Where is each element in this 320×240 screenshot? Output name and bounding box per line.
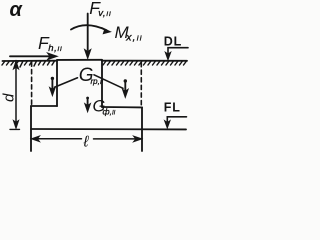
svg-text:d: d bbox=[0, 93, 17, 102]
tick at bottom of d dimension bbox=[10, 128, 20, 130]
leader from G gr,II to left arrow bbox=[55, 78, 78, 88]
force Fv,II vertical arrow bbox=[87, 14, 89, 51]
soil weight arrow left bbox=[51, 77, 54, 80]
footing step top left bbox=[31, 105, 57, 107]
dimension d (depth) line bbox=[15, 65, 17, 125]
moment Mx,II arc bbox=[71, 25, 107, 30]
svg-text:FL: FL bbox=[164, 101, 181, 115]
footing step top right bbox=[102, 106, 142, 108]
ground line right (DL level) bbox=[102, 60, 187, 62]
foundation column (pedestal) outline bbox=[57, 59, 102, 61]
ground line left (DL level) bbox=[3, 60, 58, 62]
svg-text:ℓ: ℓ bbox=[83, 134, 90, 151]
dashed soil-block boundary right bbox=[140, 63, 142, 106]
soil weight arrow right bbox=[124, 79, 127, 82]
svg-text:α: α bbox=[10, 0, 24, 21]
footing left edge (with dim extension below) bbox=[30, 106, 32, 151]
svg-text:x,II: x,II bbox=[125, 32, 143, 44]
foundation weight arrow bbox=[86, 97, 89, 100]
force Fh,II horizontal arrow bbox=[10, 55, 49, 57]
leader from G gr,II to right arrow bbox=[94, 75, 123, 89]
dimension l (footing width) line bbox=[35, 138, 138, 140]
ground hatching left bbox=[2, 61, 55, 67]
footing bottom / FL level line bbox=[31, 128, 186, 130]
ground hatching right bbox=[103, 61, 187, 65]
dashed soil-block boundary left bbox=[31, 62, 33, 105]
svg-text:DL: DL bbox=[164, 35, 182, 49]
footing right edge (with dim extension below) bbox=[141, 107, 143, 151]
